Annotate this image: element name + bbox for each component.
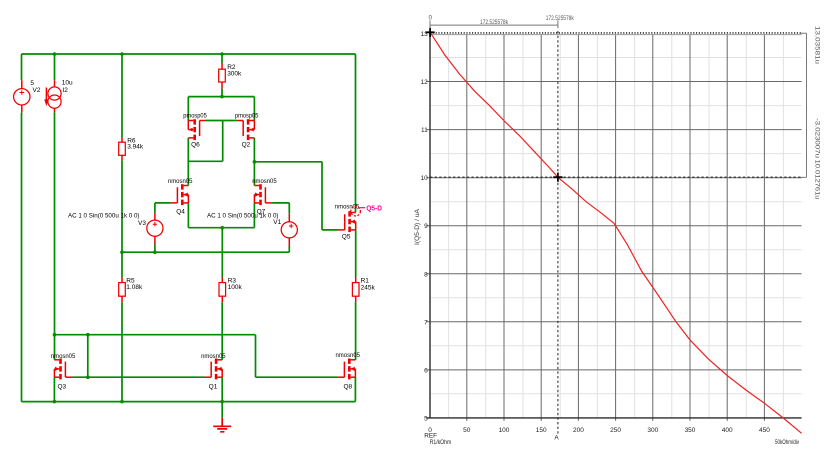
wire tail to R3	[221, 228, 223, 278]
svg-text:Q5-D: Q5-D	[366, 206, 382, 213]
wire R2 top stub	[221, 54, 223, 63]
wire pmos gate riser	[222, 121, 224, 162]
resistor R5	[119, 278, 126, 303]
wire R2 bottom stub	[221, 89, 223, 97]
axis top border line	[430, 34, 802, 36]
svg-text:nmosn05: nmosn05	[51, 353, 76, 360]
svg-text:6: 6	[424, 367, 428, 374]
svg-text:250: 250	[610, 427, 621, 434]
wire V3 gate link	[155, 203, 171, 213]
cursor b cross marker	[553, 173, 562, 182]
wire Q7 source down	[253, 203, 255, 228]
wire bottom ground rail	[22, 401, 356, 403]
node ground rail junction	[220, 400, 224, 404]
svg-text:pmosp05: pmosp05	[235, 112, 259, 119]
svg-text:172.525578k: 172.525578k	[480, 19, 509, 26]
ruler cursor values right	[801, 33, 807, 177]
node rail-R6 junction	[120, 52, 124, 56]
wire common source of diff pair	[188, 227, 254, 229]
node rail-I2 junction	[53, 52, 57, 56]
voltage source V3	[147, 213, 163, 245]
svg-text:AC 1 0 Sin(0 500u 1k 0 0): AC 1 0 Sin(0 500u 1k 0 0)	[68, 212, 140, 219]
node V3 return junction	[153, 250, 157, 254]
svg-text:245k: 245k	[361, 285, 376, 292]
svg-text:pmosp05: pmosp05	[183, 112, 207, 119]
transistor Q3 nmos	[54, 359, 72, 380]
node bias line left junction	[53, 333, 57, 337]
wire top VDD rail	[22, 53, 356, 55]
ruler cursor distance top	[430, 20, 558, 28]
grid major vertical lines	[467, 34, 765, 421]
svg-text:3.94k: 3.94k	[127, 143, 144, 150]
node bias divider junction	[120, 250, 124, 254]
svg-text:13.03581u: 13.03581u	[814, 26, 821, 65]
svg-text:0: 0	[429, 14, 433, 21]
resistor R3	[219, 278, 226, 303]
svg-text:8: 8	[424, 271, 428, 278]
ground	[213, 418, 231, 432]
node R5 rail junction	[120, 400, 124, 404]
wire V3 bottom link	[154, 245, 156, 253]
wire Q6 diode connection horizontal	[188, 160, 222, 162]
voltage source V1	[281, 214, 297, 246]
wire pmos gates tie	[206, 120, 237, 122]
svg-text:V1: V1	[273, 219, 281, 226]
svg-text:Q4: Q4	[176, 209, 185, 216]
wire R3 bottom to Q1 drain	[221, 302, 223, 360]
grid minor vertical lines	[449, 35, 784, 418]
svg-text:nmosn05: nmosn05	[336, 352, 361, 359]
node Q2 drain branch junction	[253, 160, 257, 164]
transistor Q8 nmos	[338, 359, 356, 380]
svg-text:I(Q5-D) / uA: I(Q5-D) / uA	[414, 208, 421, 245]
svg-text:I2: I2	[62, 87, 68, 94]
wire Q3 source to bottom rail	[53, 377, 55, 401]
cursor a cross marker	[426, 28, 435, 37]
svg-text:13: 13	[421, 31, 429, 38]
svg-text:350: 350	[685, 427, 696, 434]
svg-text:nmosn05: nmosn05	[168, 178, 193, 185]
transistor Q6 pmos	[188, 119, 206, 140]
svg-text:A: A	[554, 434, 559, 441]
svg-text:Q6: Q6	[191, 141, 200, 148]
transistor Q1 nmos	[205, 359, 223, 380]
voltage source V2	[14, 80, 30, 112]
wire Q2 drain down to Q7 drain	[253, 138, 255, 186]
node riser bottom junction	[86, 375, 90, 379]
transistor Q7 nmos	[254, 184, 272, 205]
svg-text:5: 5	[424, 415, 428, 422]
cursor vertical dashed line at 172.5k	[557, 31, 559, 435]
cursor b horizontal dashed line at 10u	[430, 176, 802, 178]
svg-text:450: 450	[759, 427, 770, 434]
svg-text:50: 50	[463, 427, 471, 434]
resistor R1	[352, 278, 359, 303]
wire V2 top lead column	[21, 54, 23, 80]
svg-text:10.012761u: 10.012761u	[814, 160, 821, 201]
transistor Q5 nmos	[338, 211, 356, 232]
node Q3 source rail junction	[53, 400, 57, 404]
svg-text:5: 5	[30, 80, 34, 87]
svg-text:1.08k: 1.08k	[126, 284, 143, 291]
svg-text:200: 200	[573, 427, 584, 434]
wire Q3-Q1 gate tie	[72, 376, 204, 378]
curve I(Q5-D)	[430, 32, 802, 433]
axis y left	[429, 32, 431, 418]
svg-text:nmosn05: nmosn05	[201, 353, 226, 360]
wire V2 bottom to ground rail	[21, 113, 23, 402]
transistor Q2 pmos	[237, 119, 255, 140]
wire R1 bottom to Q8 drain	[355, 302, 357, 360]
transistor Q4 nmos	[171, 184, 189, 205]
wire Q1 source to ground	[221, 377, 223, 418]
wire mirror bias line	[55, 334, 256, 336]
node tail junction	[221, 226, 225, 230]
resistor R2	[219, 63, 226, 89]
wire Q8 source to bottom rail	[354, 377, 356, 401]
wire bias node horizontal (V3/V1 return)	[122, 251, 289, 253]
grid minor horizontal lines	[430, 58, 802, 394]
node riser top junction	[86, 333, 90, 337]
wire Q2 source column	[253, 97, 255, 121]
svg-text:Q5: Q5	[342, 233, 351, 240]
svg-text:100k: 100k	[228, 284, 243, 291]
wire Q5 source to R1	[355, 230, 357, 278]
svg-text:nmosn05: nmosn05	[252, 178, 277, 185]
svg-text:300: 300	[647, 427, 658, 434]
wire I2 top lead column	[54, 54, 56, 80]
wire Q6 drain down to Q4 drain	[187, 138, 189, 186]
svg-text:300k: 300k	[227, 71, 242, 78]
wire R5 bottom to bottom rail	[121, 302, 123, 401]
wire node out to Q5 gate branch	[254, 162, 338, 230]
svg-text:12: 12	[421, 79, 429, 86]
current source I2	[44, 80, 61, 112]
wire right rail to Q5 drain	[355, 54, 357, 213]
svg-text:10: 10	[421, 175, 429, 182]
wire Q6 source column	[187, 97, 189, 121]
svg-text:172.525578k: 172.525578k	[546, 15, 575, 22]
svg-text:100: 100	[499, 427, 510, 434]
cursor a horizontal dashed line at 13u	[430, 32, 802, 34]
svg-text:Q8: Q8	[344, 383, 353, 390]
svg-text:V2: V2	[33, 87, 41, 94]
wire R6 column from rail	[121, 54, 123, 137]
axis x bottom	[426, 417, 801, 419]
svg-text:V3: V3	[138, 220, 146, 227]
svg-text:-3.023007u: -3.023007u	[814, 118, 821, 159]
svg-text:150: 150	[536, 427, 547, 434]
svg-text:11: 11	[421, 127, 428, 134]
resistor R6	[119, 137, 126, 160]
wire V1 gate link	[272, 203, 289, 214]
wire pmos sources top	[188, 96, 254, 98]
svg-text:9: 9	[424, 223, 428, 230]
wire V1 bottom link	[288, 246, 290, 252]
svg-text:7: 7	[424, 319, 428, 326]
svg-text:400: 400	[722, 427, 733, 434]
wire I2 bottom down to Q3 drain	[54, 112, 56, 359]
svg-text:Q1: Q1	[209, 384, 218, 391]
svg-text:10u: 10u	[62, 80, 73, 87]
current probe Q5-D	[351, 206, 365, 216]
wire R6 bottom to bias node	[121, 160, 123, 277]
svg-text:R1: R1	[361, 278, 370, 285]
wire Q4 source down	[187, 203, 189, 228]
node rail-R2 junction	[220, 52, 224, 56]
svg-text:AC 1 0 Sin(0 500u 1k 0 0): AC 1 0 Sin(0 500u 1k 0 0)	[207, 212, 279, 219]
svg-text:Q3: Q3	[58, 384, 67, 391]
wire bias riser left	[87, 335, 89, 378]
wire bias drop to Q8 gate	[256, 335, 338, 378]
node R2-pmos junction	[220, 95, 224, 99]
svg-text:50kOhm/div: 50kOhm/div	[775, 439, 800, 446]
grid major horizontal lines	[426, 82, 801, 370]
svg-text:R1/kOhm: R1/kOhm	[430, 439, 452, 446]
svg-text:Q2: Q2	[242, 141, 251, 148]
